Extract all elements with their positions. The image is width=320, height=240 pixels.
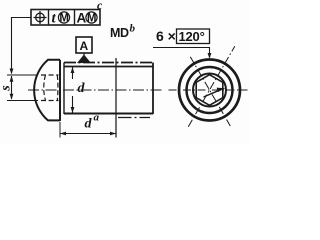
arrowhead s up (10, 76, 14, 82)
svg-text:d: d (85, 117, 93, 132)
60-240 spoke (188, 46, 235, 127)
svg-text:A: A (77, 10, 87, 25)
centerline of bolt (28, 89, 163, 91)
arrowhead d up (71, 67, 75, 73)
leader under 6x120 (153, 48, 210, 56)
head outer circle (179, 60, 240, 121)
svg-text:c: c (97, 0, 103, 12)
shank crest line top (64, 66, 153, 68)
svg-text:A: A (80, 39, 89, 53)
socket circle (193, 74, 226, 107)
inner leader arrow (204, 90, 220, 97)
hidden square neck (dashed) (41, 75, 59, 101)
s dimension line (7, 75, 38, 101)
svg-text:MD: MD (110, 26, 129, 40)
shank crest line bottom (64, 113, 153, 115)
arrowhead da left (60, 132, 66, 136)
shank end cap (152, 63, 154, 115)
svg-text:6 ×: 6 × (156, 28, 176, 44)
svg-text:b: b (130, 23, 136, 35)
bolt head outline (34, 60, 60, 121)
hex socket (196, 75, 223, 106)
shank MD line top (dash-dot) (64, 62, 153, 64)
datum stem (83, 53, 85, 56)
neck / washer face line (63, 63, 65, 115)
wire: leader from feature control frame to s dimension (12, 18, 32, 73)
arrowhead da right (110, 132, 116, 136)
horizontal centerline (169, 89, 248, 91)
arrowhead d down (71, 107, 75, 113)
arrowhead leader down (10, 69, 14, 75)
d^a dimension (59, 122, 61, 138)
arrowhead leader to circle (208, 53, 212, 59)
svg-text:M: M (59, 13, 69, 25)
d dimension inside shank (72, 67, 74, 113)
position symbol (34, 11, 47, 24)
svg-text:M: M (87, 13, 97, 25)
svg-text:s: s (0, 85, 14, 92)
datum feature triangle (77, 55, 91, 64)
rib circle (187, 67, 233, 113)
spokes (centerlines) (169, 46, 248, 127)
arrowhead s down (10, 94, 14, 100)
svg-text:120°: 120° (179, 29, 205, 44)
extension line at thread end (115, 58, 117, 138)
shank MD line bottom (dash-dot) (118, 117, 150, 119)
svg-text:d: d (78, 81, 86, 96)
svg-text:a: a (94, 112, 100, 124)
120-300 spoke (190, 57, 230, 126)
datum box A (76, 37, 92, 53)
feature control frame (31, 10, 100, 26)
